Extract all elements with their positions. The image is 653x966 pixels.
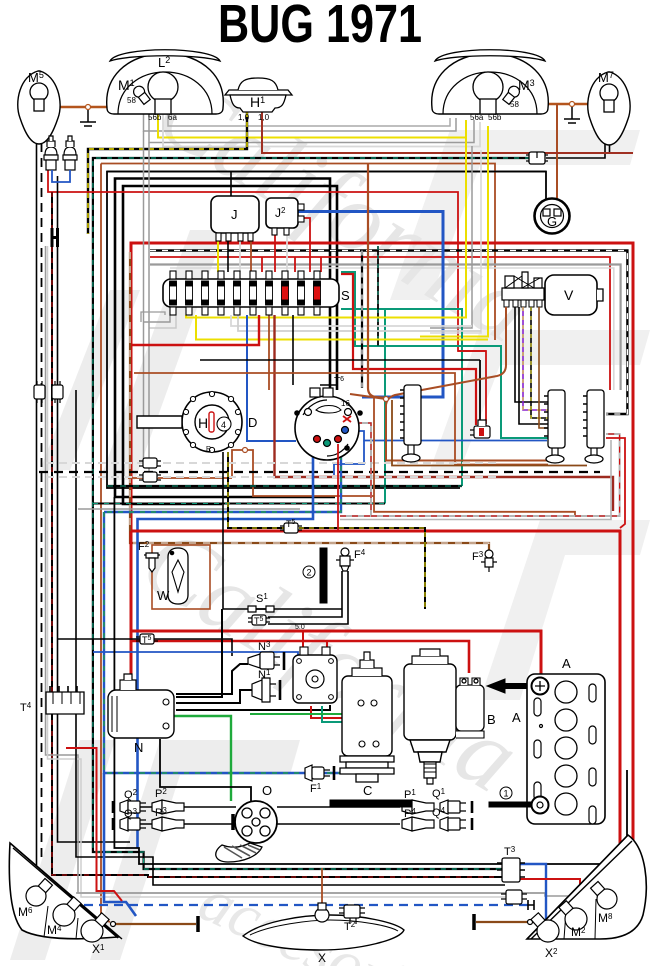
distributor O body — [235, 801, 277, 843]
X1 dividers — [44, 906, 78, 939]
wire yellow J pin down — [217, 241, 219, 272]
fuse box terminals bottom — [170, 307, 320, 315]
speedometer D inner — [195, 405, 229, 439]
wire sienna V down to switch — [386, 307, 547, 461]
X2 bulb3 — [587, 878, 621, 913]
wire black bundle 858 — [76, 714, 505, 885]
wire red J2 side down — [304, 218, 310, 272]
distributor O cam base — [216, 843, 262, 862]
ground below M5 node — [80, 110, 96, 126]
wire sienna left vertical — [101, 164, 110, 923]
wire gray fusebox elbow c — [141, 312, 165, 322]
ground strap arrow — [487, 679, 534, 693]
wire red left vertical lower — [130, 631, 133, 700]
wire black coil to N3 — [176, 664, 248, 694]
wire teal fusebox to mid — [384, 309, 386, 504]
X1 bulb2 — [48, 893, 85, 931]
wire yellow fusebox 339 — [196, 315, 488, 340]
X2 dividers — [564, 899, 596, 939]
solenoid on starter — [456, 678, 484, 738]
T2 connector right lower — [501, 890, 527, 904]
wire brown dashed vertical to F3 — [130, 252, 489, 550]
spark plug Q3 — [113, 817, 146, 831]
wiper motor V bracket — [502, 272, 544, 300]
wire sienna bundle 163 down right — [101, 164, 495, 341]
coil N body — [108, 674, 174, 738]
wire red dark vertical to connector — [479, 360, 481, 424]
connector strip right1 — [544, 390, 565, 463]
wire black-yellow V down — [531, 307, 548, 418]
wire blue-red dashed 905 — [84, 904, 528, 906]
wire red 192 frame — [48, 170, 486, 424]
wire gray M3 down 472 — [430, 146, 472, 328]
wire black-teal dashed bundle 158 — [93, 158, 530, 869]
small connector mid — [470, 420, 490, 438]
wire black-white dashed 250 — [150, 251, 627, 415]
svg-text:56a: 56a — [470, 113, 484, 122]
terminal bar X1 brown — [196, 916, 200, 932]
generator C body — [342, 652, 392, 756]
svg-text:58: 58 — [127, 96, 136, 105]
svg-text:O: O — [262, 783, 272, 798]
bulb M7 — [600, 84, 618, 102]
wire white dashed T row 463 — [46, 462, 497, 464]
wire brown 465 — [392, 400, 587, 466]
wire white bundle 146 — [163, 114, 480, 147]
wire black-white dashed to T6 — [361, 251, 363, 389]
wire red regulator up — [302, 631, 304, 655]
wire white pair left vertical — [48, 246, 509, 897]
wiper motor V body — [545, 275, 597, 315]
generator C pulley — [340, 756, 394, 782]
ignition terminals colored — [295, 409, 362, 451]
W top contacts — [170, 551, 174, 555]
headlight M3 housing — [432, 53, 549, 114]
T3 connector right — [497, 858, 525, 882]
wire blue-green dashed 515 — [104, 455, 341, 512]
horn H1 dome — [238, 78, 278, 90]
bulb 58 angled M3 — [502, 84, 522, 105]
ignition T6 connector — [310, 385, 338, 397]
wire teal-black dashed 503 — [93, 503, 385, 505]
wire red mid 351 — [458, 350, 486, 352]
wire terminal bracket end 905 — [528, 900, 534, 910]
spark plug P3 — [152, 817, 184, 831]
label circled2 — [303, 566, 315, 578]
wire black 639 to N3 — [58, 639, 233, 656]
battery slots — [534, 684, 596, 824]
wiper motor V pins — [504, 300, 542, 307]
wire black V down b — [519, 307, 548, 424]
W fuel gauge body — [168, 548, 188, 604]
distributor O base hatch — [224, 845, 260, 858]
svg-text:A: A — [512, 710, 521, 725]
horn H1 body — [230, 95, 286, 112]
wire black right plugs row2 — [277, 823, 400, 825]
wire gray 509 — [78, 508, 300, 510]
node at M5 ground — [86, 105, 91, 110]
tail light X1 housing — [9, 843, 118, 939]
wire white J pin down — [239, 241, 241, 272]
wire black F4 down left 617 — [268, 571, 342, 617]
wire white fusebox 326 — [231, 315, 472, 326]
wire green coil to distributor O — [171, 716, 231, 801]
wire teal 462 — [341, 309, 462, 486]
wire black fusebox to T6 — [292, 315, 294, 385]
fuse box terminals top — [170, 271, 320, 279]
X2 bulb1 — [526, 909, 563, 947]
F3 fuse — [481, 550, 497, 572]
bulb L2 base — [155, 99, 171, 114]
spark plug Q1 — [440, 800, 472, 814]
svg-text:5.0: 5.0 — [295, 624, 305, 631]
wire gray top bundle 126 — [168, 114, 450, 126]
wire black M7 stem down to T-connector — [546, 113, 605, 158]
wire brown V area to node — [368, 164, 386, 398]
svg-text:58: 58 — [510, 100, 519, 109]
bulb M3 base — [480, 99, 496, 114]
wire blue thick J2 right — [298, 212, 443, 398]
S1 fuse — [248, 606, 274, 612]
wire red fusebox to left frame — [131, 315, 259, 345]
wire red left vertical to X1 — [66, 748, 122, 901]
T connector top right — [526, 152, 548, 164]
wire yellow fusebox 317 — [186, 315, 466, 318]
bulb M5 base — [34, 99, 44, 111]
spark plug P1 — [402, 800, 434, 814]
relay J2 pins — [272, 204, 304, 235]
node sienna 450 — [243, 448, 248, 453]
ground below M3 node — [564, 107, 580, 123]
turn signal M5 housing — [18, 71, 60, 144]
spark plug Q2 — [113, 800, 146, 814]
X2 bulb2 — [554, 897, 591, 935]
wire brown X2 stub — [476, 922, 548, 928]
spark plug Q4 — [440, 817, 472, 831]
wire blue T3 to X2 bulb — [520, 864, 546, 922]
bulb L2 — [148, 72, 178, 102]
wire red thick frame top — [131, 243, 633, 858]
headlight L2 housing — [107, 53, 224, 114]
battery terminal bottom — [532, 797, 549, 814]
wire green generator left — [250, 713, 360, 715]
battery cells — [555, 681, 577, 815]
wire red T3 to X2 bulb — [520, 879, 580, 915]
svg-text:R: R — [206, 446, 211, 453]
ignition switch body — [295, 396, 359, 460]
switch inner eye — [316, 406, 341, 414]
wire white fusebox 331 — [238, 315, 481, 331]
wire red thick 631 to battery — [131, 531, 541, 680]
wire black plugs row1 to O — [120, 806, 236, 808]
wire brown X1 stub — [113, 923, 196, 925]
wire black coil down to O — [160, 739, 251, 801]
svg-text:4: 4 — [221, 420, 226, 430]
wire black bundle 837 — [114, 497, 502, 864]
svg-text:W: W — [157, 588, 170, 603]
wire sienna J pin down — [250, 241, 252, 272]
wire blue fusebox down to switch — [247, 315, 296, 441]
svg-text:6a: 6a — [168, 113, 177, 122]
wire purple-yellow V down — [523, 307, 548, 410]
connector strip right2 — [583, 390, 604, 463]
wire black J pin down — [227, 241, 229, 272]
relay J pins — [216, 233, 253, 241]
bulb 58 angled L2 — [131, 84, 151, 105]
wire gray bundle 142 — [149, 114, 474, 143]
speedometer D stem — [137, 416, 182, 428]
wiper motor V nose — [597, 289, 603, 301]
wire black frame3 thick — [123, 186, 337, 504]
speedometer D outer — [182, 392, 242, 452]
wire sienna fusebox to T6 — [268, 315, 270, 390]
headlight M3 top flange — [435, 50, 545, 61]
T2 connector left lower — [339, 905, 365, 924]
wire black X2 top down — [626, 770, 628, 838]
wire black J top up — [230, 172, 232, 197]
wire red 641 to solenoid — [131, 641, 469, 673]
fuse elements — [170, 281, 321, 305]
F1 sender — [305, 765, 334, 781]
wire brown V down — [539, 307, 548, 428]
wire sienna X lens bulb — [321, 868, 323, 905]
svg-text:D: D — [248, 415, 257, 430]
svg-text:N: N — [134, 740, 143, 755]
wire red J2 pin down — [274, 235, 276, 272]
wire dark red H1 right to right edge — [262, 112, 633, 153]
wire black mid 360 — [200, 359, 480, 361]
wire black-red dashed left vertical — [52, 192, 502, 877]
wire red switch down — [337, 444, 339, 531]
T5 connector mid — [280, 523, 302, 533]
wire black speedo to S1 — [222, 452, 224, 609]
starter B gear — [424, 762, 436, 784]
node X2 brown — [528, 920, 533, 925]
wire red thick 531 frame — [131, 531, 620, 880]
wire black V down — [515, 307, 548, 402]
horn G terminals — [543, 209, 561, 216]
wire black coil top bundle — [176, 609, 222, 697]
wire white-red dashed 517 — [308, 423, 620, 516]
wire black right plugs row1 — [277, 806, 400, 808]
license light X inner — [250, 920, 398, 935]
wire black-teal dashed 378 — [377, 246, 379, 346]
wire red fusebox to T6 to 477 line — [275, 315, 614, 511]
bulb M3 — [473, 72, 503, 102]
wire sienna M3 down to horn G — [556, 104, 558, 210]
wire sienna switch top — [350, 394, 386, 399]
wire gray frame 253 — [150, 265, 621, 391]
node X1 brown — [111, 922, 116, 927]
wire red fusebox loop 369 — [341, 274, 476, 425]
T connector left T4 pair a — [34, 381, 45, 403]
wire black M5 stem down left side — [36, 113, 38, 866]
wire yellow L2 to bundle 137 — [158, 114, 466, 138]
wire black-teal dashed 486 — [107, 485, 462, 487]
wire brown 373 — [134, 373, 548, 465]
svg-text:G: G — [547, 214, 557, 229]
connector strip left of switch — [400, 385, 421, 462]
wire white J2 pin down — [286, 235, 288, 272]
wire brown M5 to ground to L2 — [47, 106, 140, 109]
T4 comb connector — [46, 686, 84, 714]
brake switch 1 — [44, 136, 58, 170]
wire black left vertical 76 — [75, 390, 77, 700]
wire white frame 268 — [170, 268, 614, 390]
wire teal right mid — [341, 272, 560, 438]
wire red 257 — [150, 257, 610, 390]
headlight L2 inner arc — [118, 72, 212, 114]
F2 sender — [144, 553, 160, 572]
wire gray to T2 connector — [76, 893, 568, 910]
wire blue switch to left vertical — [138, 447, 314, 848]
wire black bundle T3 out right — [520, 838, 629, 864]
wire white M3 down 481 — [430, 150, 481, 333]
F4 fuse — [336, 548, 354, 571]
wire black plugs row2 to O — [120, 823, 236, 825]
battery ground bar — [489, 802, 533, 807]
distributor O left terminal — [231, 814, 235, 830]
T connector pair mid left a — [139, 458, 161, 468]
wire black-yellow dashed speedo to T5 — [228, 452, 284, 528]
headlight L2 top flange — [110, 50, 220, 61]
label circled1 — [500, 787, 512, 799]
turn signal M7 housing — [588, 72, 630, 145]
regulator on engine — [293, 647, 337, 703]
wire black frame1 — [107, 172, 546, 489]
spark plug P2 — [152, 800, 184, 814]
license light X lens — [243, 915, 404, 950]
wire sienna 478 left — [128, 477, 232, 479]
battery terminal top cross — [535, 681, 545, 691]
N1 condenser — [252, 678, 280, 702]
wire blue 652 — [93, 652, 298, 696]
distributor O towers — [242, 808, 270, 836]
wire red-dash stub 516 — [340, 515, 371, 517]
speedometer fuel gauge bulb — [209, 412, 214, 432]
starter B body — [404, 649, 456, 762]
X1 bulb3 — [76, 909, 113, 947]
wire black frame2 thick — [115, 179, 335, 498]
tail light X2 lens line — [527, 835, 632, 939]
wire black-yellow dashed T5 right — [299, 528, 425, 609]
battery A body — [527, 674, 605, 824]
bulb M5 — [30, 83, 48, 101]
wire blue thick to X1 — [104, 773, 136, 916]
wire red X switch — [343, 416, 351, 422]
wire blue switch right to strip1 — [348, 431, 547, 441]
fuse box S body — [163, 279, 339, 307]
wire black dashed 472 — [39, 471, 600, 473]
node at M3 ground — [570, 102, 575, 107]
wire blue brake loop — [52, 170, 70, 182]
tail light X1 lens line — [10, 843, 122, 939]
horn G inner — [541, 205, 564, 228]
headlight M3 inner arc — [443, 72, 537, 114]
wire black F4 down left 624 — [268, 571, 348, 624]
svg-text:BUG 1971: BUG 1971 — [218, 0, 422, 54]
wire red regulator up2 — [326, 641, 328, 655]
battery terminal bottom dot — [537, 802, 543, 808]
wire sienna 511 — [374, 396, 575, 516]
svg-text:S: S — [341, 288, 350, 303]
svg-text:J: J — [231, 207, 238, 222]
speedometer circled 4 — [217, 417, 231, 431]
T connector pair mid left b — [139, 472, 161, 482]
wire red regulator to generator — [311, 706, 362, 718]
tail light X2 housing — [527, 835, 646, 939]
circled 2 bar — [320, 548, 327, 603]
wire blue-green dashed left vertical to F1 — [104, 512, 340, 773]
wire brown M3 58 to ground to M7 — [516, 103, 600, 106]
wire white dashed T row 477 — [46, 476, 497, 478]
svg-text:2: 2 — [306, 568, 311, 578]
svg-text:X: X — [318, 951, 326, 965]
relay J2 body — [266, 198, 298, 228]
speedometer bolts — [183, 391, 240, 452]
svg-text:V: V — [564, 287, 574, 303]
svg-text:1: 1 — [503, 789, 508, 799]
X1 bulb1 — [22, 875, 56, 910]
wire blue loop below switch — [334, 441, 364, 476]
svg-text:B: B — [487, 712, 496, 727]
wire black from bundle to horn G — [107, 172, 546, 211]
T5 connector lower — [248, 615, 270, 625]
wire yellow M3 down-left 56a — [420, 138, 466, 318]
horn G outer — [535, 199, 570, 234]
wire gray pair left vertical — [46, 246, 546, 893]
bulb M7 base — [604, 100, 614, 112]
spark plug P4 — [402, 817, 434, 831]
svg-text:1,0: 1,0 — [238, 113, 250, 122]
W inner diamond — [172, 560, 184, 592]
W box frame — [152, 545, 210, 609]
node sienna switch — [384, 397, 389, 402]
svg-text:56b: 56b — [148, 113, 162, 122]
wire teal regulator to generator — [322, 706, 372, 722]
license light X bulb — [315, 903, 329, 922]
circled 1 black bar — [330, 800, 412, 807]
T connector left T4 pair b — [52, 381, 63, 403]
N3 condenser — [248, 652, 284, 670]
wire red strip2 down 522 — [606, 438, 625, 528]
wire sienna node to 496 — [232, 450, 374, 496]
wire yellow M3 down 488 — [420, 126, 488, 337]
brake switch 2 — [63, 136, 77, 170]
H connector left — [52, 228, 58, 247]
wire gray fusebox elbow — [144, 315, 171, 322]
horn H1 flange — [225, 90, 292, 95]
wire gray long vertical to T row — [144, 131, 150, 473]
wire black left vertical 57 — [58, 176, 131, 842]
wire black coil right 710 — [176, 705, 330, 710]
svg-text:C: C — [363, 783, 372, 798]
T5 connector left — [136, 634, 158, 644]
wire gray fusebox elbow b — [149, 315, 176, 328]
wire gray top bundle 131 — [144, 114, 457, 131]
wire gray 519.5 — [340, 440, 611, 520]
svg-text:A: A — [562, 656, 571, 671]
wire black-yellow dashed H1 left — [88, 112, 247, 234]
svg-text:H: H — [198, 415, 208, 431]
terminal bar X2 brown — [472, 914, 476, 930]
wire red feed drops — [262, 257, 321, 272]
battery terminal top — [532, 678, 549, 695]
svg-text:56b: 56b — [488, 113, 502, 122]
svg-text:1,0: 1,0 — [258, 113, 270, 122]
svg-text:16: 16 — [341, 399, 350, 408]
wire black S1 line 609 — [223, 608, 342, 610]
